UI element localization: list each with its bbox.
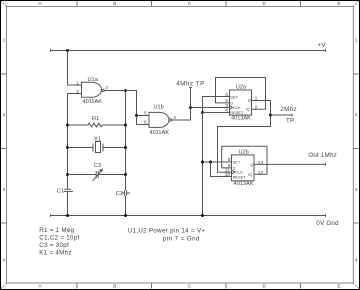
svg-text:B: B [113,1,116,6]
svg-text:Out 1Mhz: Out 1Mhz [308,152,337,159]
svg-text:8: 8 [228,157,231,163]
pin 1 U1a [76,80,79,86]
pin 12 U2b [258,170,264,176]
svg-text:R1 = 1 Meg: R1 = 1 Meg [39,227,74,234]
test point 2Mhz TP [271,114,293,117]
pin 3 U2a [225,103,228,109]
node right rail R1 row [124,124,127,127]
node ground right rail [124,214,127,217]
label U2a RESET [230,110,244,115]
pin 5 U2a [225,98,228,104]
pin 9 U2b [228,163,231,169]
label U2b CLK [235,170,243,175]
svg-text:RESET: RESET [233,175,247,180]
pin 4 U1b [173,115,176,121]
node 2Mhz junction [269,114,272,117]
svg-text:3: 3 [105,85,108,91]
svg-text:C3 = 30pf: C3 = 30pf [39,242,69,249]
svg-text:K1 = 4Mhz: K1 = 4Mhz [39,250,71,257]
resistor R1 [68,123,126,127]
label U2a D [230,101,233,106]
svg-text:4: 4 [225,108,228,114]
test point 4Mhz TP [189,88,192,108]
svg-text:2Mhz: 2Mhz [280,106,297,113]
note C3 value [39,242,69,249]
label U2b /Q [248,172,252,177]
label 4Mhz TP [176,81,205,88]
svg-text:U1b: U1b [154,105,164,111]
pin 6 U1b [144,120,147,126]
flip-flop U2a (4013) [229,90,251,115]
svg-text:2: 2 [76,89,79,95]
label U1b 4011AK [150,130,170,136]
svg-text:U2b: U2b [239,149,249,155]
svg-text:TP: TP [286,117,294,124]
node U1b input junction [135,114,138,117]
svg-text:+V: +V [318,42,327,49]
svg-text:R1: R1 [92,116,99,122]
flip-flop U2b (4013) [232,155,255,181]
label U2a [236,85,247,91]
left rail (R1/X1/C3/C1 column) [67,125,69,216]
wire U1b pin6 jog [137,116,150,125]
pin 2 U1a [76,89,79,95]
label X1 [94,136,101,142]
frame letters bottom [38,283,340,288]
pin 4 U2a [225,108,228,114]
svg-text:2: 2 [3,112,6,117]
svg-text:6: 6 [144,120,147,126]
ground rail 0V [51,214,326,217]
node U2a RESET junction [201,111,204,114]
svg-text:pin 7 = Gnd: pin 7 = Gnd [163,235,200,242]
svg-text:1: 1 [3,37,6,42]
capacitor C3 (variable) [68,170,126,181]
wire U2a Q output [218,101,271,173]
pin 8 U2b [228,157,231,163]
note power pins line2 [163,235,200,242]
wire U2b SET [203,161,232,163]
label R1 [92,116,99,122]
node U2b SET rail junction [201,161,204,164]
svg-text:RESET: RESET [230,110,244,115]
label C1 [57,188,64,194]
node right rail C3 row [124,173,127,176]
svg-text:4011AK: 4011AK [150,130,170,136]
node right rail output [124,89,127,92]
label C3 [94,163,101,169]
node U2b RESET jog junction [209,161,212,164]
right rail (oscillator output column) [125,91,127,216]
wire U2a /Q feedback to D [216,78,266,110]
pin 5 U1b [144,111,147,117]
note R1 value [39,227,74,234]
svg-text:1: 1 [76,80,79,86]
svg-text:/Q: /Q [248,172,252,177]
svg-text:SET: SET [230,94,238,99]
svg-text:4Mhz TP: 4Mhz TP [176,81,205,88]
svg-text:10: 10 [225,172,231,178]
note C1,C2 value [39,235,79,242]
+V power rail [51,49,326,52]
note K1 value [39,250,71,257]
frame numbers left [3,37,6,262]
wire U2a SET [203,97,230,113]
svg-text:12: 12 [258,170,264,176]
label U1a [88,77,99,83]
pin 6 U2a [225,92,228,98]
label U2b D [233,166,236,171]
svg-text:SET: SET [233,159,241,164]
pin 13 U2b [258,160,264,166]
svg-text:/Q: /Q [246,106,250,111]
svg-text:1: 1 [255,96,258,102]
label U1b [154,105,164,111]
wire U2b RESET jog [211,162,232,177]
label U2a /Q [246,106,250,111]
svg-text:4: 4 [3,258,6,263]
svg-text:E: E [337,1,340,6]
svg-text:Q: Q [250,162,253,167]
label U2b SET [233,159,241,164]
wire U2b /Q feedback to D [222,146,267,174]
label U2b RESET [233,175,247,180]
label U2a SET [230,94,238,99]
node left rail C3 row [66,173,69,176]
wire U2a RESET [203,112,230,114]
frame letters top [38,1,340,6]
svg-text:4: 4 [355,258,358,263]
svg-text:4011AK: 4011AK [83,99,103,105]
pin 11 U2b [225,168,230,174]
node +V rail to pin1 junction [66,49,69,52]
svg-text:C1,C2 = 10pf: C1,C2 = 10pf [39,235,79,242]
wire +V to U1a pin1 [68,51,82,86]
frame numbers right [355,37,358,262]
op-amp U1a (NAND gate 4011) [82,82,105,97]
node left rail X1 row [66,146,69,149]
svg-text:C1: C1 [57,188,64,194]
pin 2 U2a [255,104,258,110]
wire U1b output to 4Mhz node [172,108,191,121]
label C2 [116,191,123,197]
crystal X1 [68,142,126,153]
label U2a 4013AK [231,115,251,121]
svg-text:B: B [113,283,116,288]
svg-text:0V Gnd: 0V Gnd [316,220,339,227]
svg-text:X1: X1 [94,136,101,142]
svg-text:3: 3 [3,187,6,192]
svg-text:4: 4 [173,115,176,121]
wire 4Mhz to U2a CLK [191,107,230,109]
wire U1a output to U1b [104,91,149,116]
wire U1a pin2 feedback [68,94,82,126]
capacitor C1 [64,189,73,191]
svg-text:2: 2 [355,112,358,117]
pin 3 U1a [105,85,108,91]
pin 10 U2b [225,172,231,178]
label 0V Gnd [316,220,339,227]
label U2a CLK [233,105,241,110]
wire SET/RESET rail to ground [202,113,204,216]
svg-text:5: 5 [144,111,147,117]
node ground left rail [66,214,69,217]
label 2Mhz [280,106,297,113]
svg-text:3: 3 [355,187,358,192]
label U2b Q [250,162,253,167]
node ground set/reset rail [201,214,204,217]
capacitor C2 [121,190,130,196]
label U1a 4011AK [83,99,103,105]
label TP [286,117,294,124]
svg-text:U1a: U1a [88,77,99,83]
svg-text:4013AK: 4013AK [234,181,254,187]
node right rail X1 row [124,146,127,149]
label U2b [239,149,249,155]
node 4Mhz junction [189,106,192,109]
svg-text:U1,U2 Power pin 14 = V+: U1,U2 Power pin 14 = V+ [128,228,206,235]
svg-text:C2: C2 [116,191,123,197]
op-amp U1b (NAND gate 4011) [149,112,172,127]
label Out 1Mhz [308,152,337,159]
svg-text:13: 13 [258,160,264,166]
svg-text:1: 1 [355,37,358,42]
node left rail R1 row [66,124,69,127]
label U2a Q [248,97,251,102]
note power pins line1 [128,228,206,235]
svg-text:U2a: U2a [236,85,247,91]
label +V [318,42,327,49]
svg-text:Q: Q [248,97,251,102]
svg-text:6: 6 [225,92,228,98]
svg-text:E: E [337,283,340,288]
svg-text:4013AK: 4013AK [231,115,251,121]
svg-text:2: 2 [255,104,258,110]
label U2b 4013AK [234,181,254,187]
wire U2b Q output (Out 1Mhz) [254,163,325,166]
svg-text:C3: C3 [94,163,101,169]
pin 1 U2a [255,96,258,102]
